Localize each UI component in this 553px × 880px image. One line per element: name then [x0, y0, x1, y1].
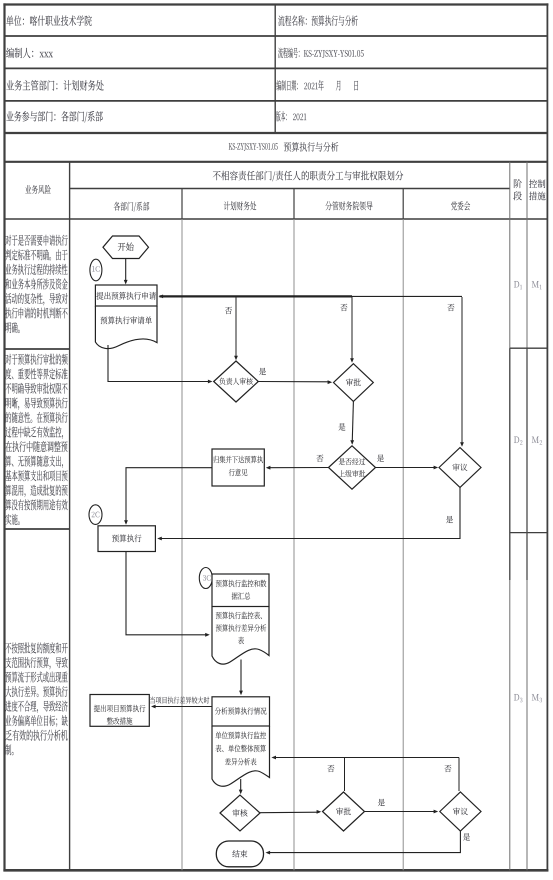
- process box 预算执行: [98, 526, 155, 552]
- column line finance|leader: [293, 219, 295, 870]
- label 是 (deliberate): [446, 516, 453, 523]
- label 提出项目预算执行整改措施: [94, 705, 146, 712]
- label 审批: [346, 378, 361, 386]
- label 否 (approve): [340, 304, 347, 311]
- label 预算执行: [112, 534, 141, 542]
- decision diamond 审议: [439, 448, 481, 488]
- wire review->approve: [258, 381, 330, 383]
- label 否 (upper): [316, 455, 323, 462]
- wire upper-yes->deliberate: [376, 467, 437, 469]
- process box 归集并下达预算执行意见: [212, 449, 264, 486]
- header 阶段: [514, 179, 522, 188]
- info table bottom line: [4, 132, 547, 134]
- header 各部门/系部: [114, 202, 150, 212]
- header 业务风险: [25, 185, 50, 194]
- label 1C: [92, 266, 100, 272]
- decision diamond 审批: [334, 364, 374, 402]
- wire monitor->analyse: [240, 660, 242, 694]
- stage label D3: [514, 694, 519, 700]
- label 结束: [232, 850, 247, 858]
- info 业务参与部门: [6, 111, 102, 123]
- label 单位预算执行监控表: [215, 732, 266, 739]
- stage row divider 2: [510, 532, 548, 534]
- wire analyse->check: [240, 779, 242, 793]
- connector circle 3C: [199, 568, 212, 589]
- decision diamond 审议 (bottom): [440, 792, 481, 831]
- label 是 (upper): [377, 455, 384, 462]
- process box 预算执行监控和数据汇总: [212, 574, 269, 607]
- stage label D1: [514, 281, 519, 287]
- wire check->approve2: [260, 811, 320, 814]
- label 预算执行监控表: [216, 612, 262, 619]
- label 预算执行审请单: [101, 316, 152, 324]
- header 计划财务处: [224, 201, 256, 210]
- outer border top: [3, 3, 548, 5]
- column name row divider 2: [293, 189, 295, 220]
- label 预算执行监控和数据汇总: [216, 580, 267, 587]
- wire deliberate2-yes->end: [267, 831, 460, 853]
- label 提出预算执行申请: [96, 292, 155, 300]
- connector circle 2C: [89, 505, 102, 525]
- label 是 (approve2): [378, 799, 385, 806]
- info table row line 3: [4, 100, 547, 102]
- label 开始: [118, 242, 134, 251]
- label 负责人审核: [219, 378, 252, 385]
- column name row divider 3: [402, 189, 404, 220]
- label 否 (approve2): [327, 765, 334, 772]
- label 否 (review): [225, 307, 232, 314]
- wire rejection return (thin): [352, 295, 462, 297]
- header bottom line: [4, 218, 547, 220]
- title row bottom line: [4, 161, 547, 163]
- document 预算执行监控表等: [212, 607, 269, 665]
- label 否 (deliberate2): [444, 765, 451, 772]
- label 是 (deliberate2): [463, 833, 470, 840]
- column line leader|committee: [402, 219, 404, 870]
- label 审核: [233, 809, 248, 817]
- header 不相容责任部门: [213, 171, 403, 182]
- column line departments|finance: [181, 219, 183, 870]
- wire bottom rejection loop: [273, 757, 459, 759]
- decision diamond 是否经过上级审批: [329, 446, 376, 489]
- wire approve->upper check: [352, 401, 353, 443]
- title row: [229, 143, 278, 151]
- header 分管财务院领导: [325, 201, 372, 210]
- info 编制人: [6, 48, 33, 59]
- header 控制措施: [529, 179, 545, 188]
- control label M2: [532, 437, 539, 443]
- label 是 (review): [259, 368, 266, 375]
- outer border bottom: [3, 869, 548, 872]
- wire drop to deliberate diamond: [461, 297, 463, 446]
- wire collect->execute: [126, 468, 212, 524]
- stage column dark segment left: [509, 348, 511, 580]
- column line committee|stage: [509, 162, 511, 871]
- label 是 (approve): [338, 423, 345, 430]
- header mid line: [70, 188, 510, 190]
- risk row divider 2: [4, 528, 70, 530]
- outer border right: [546, 3, 548, 871]
- stage label D2: [514, 437, 519, 443]
- label 审批 (bottom): [336, 808, 351, 816]
- decision diamond 负责人审核: [214, 361, 259, 402]
- process box 提出预算执行申请: [95, 285, 157, 306]
- info 流程名称: [278, 15, 357, 26]
- wire execute->monitor: [126, 552, 208, 635]
- risk text block 3: [5, 642, 67, 653]
- connector circle 1C: [90, 259, 102, 281]
- header 党委会: [451, 201, 470, 210]
- wire drop to review diamond: [235, 297, 237, 359]
- risk text block 1: [5, 235, 67, 246]
- column line stage|control: [526, 162, 528, 871]
- end terminator 结束: [216, 841, 263, 867]
- info table row line 2: [4, 67, 547, 69]
- wire deliberate-yes->execute: [159, 487, 461, 538]
- document 预算执行审请单: [95, 306, 157, 349]
- wire upper-no->collect box: [268, 467, 329, 469]
- label 3C: [203, 575, 211, 581]
- outer border left: [3, 3, 5, 871]
- wire rejection return (thick): [160, 295, 353, 297]
- label 审议 (bottom): [453, 808, 468, 816]
- wire approve2->deliberate2: [365, 811, 437, 813]
- decision diamond 审核: [220, 795, 260, 831]
- wire drop to approve diamond: [351, 297, 353, 362]
- label 审议: [453, 463, 468, 471]
- info 编制日期: [276, 80, 297, 91]
- label 否 (deliberate): [447, 304, 454, 311]
- wire drop to bottom deliberate: [458, 758, 460, 792]
- wire start->apply: [125, 259, 127, 282]
- decision diamond 审批 (bottom): [323, 792, 365, 831]
- column name row divider 1: [181, 189, 183, 220]
- risk row divider 1: [4, 348, 70, 350]
- wire document->review: [108, 345, 211, 382]
- info 业务主管部门: [6, 80, 103, 91]
- process box 分析预算执行情况: [212, 697, 270, 726]
- stage row divider 1: [510, 347, 548, 349]
- label 当项目执行差异较大时: [150, 697, 209, 704]
- column line risk|departments: [69, 162, 71, 871]
- info 单位: [6, 15, 92, 26]
- info table column divider: [274, 4, 276, 133]
- info 版本: [276, 111, 287, 122]
- label 2C: [92, 512, 100, 518]
- control label M3: [532, 694, 539, 700]
- label 分析预算执行情况: [215, 707, 267, 714]
- start terminator 开始: [103, 236, 149, 259]
- info table row line 1: [4, 35, 547, 37]
- control label M1: [532, 281, 539, 287]
- label 是否经过上级审批: [339, 458, 366, 465]
- risk text block 2: [5, 354, 67, 365]
- process box 提出项目预算执行整改措施: [90, 695, 149, 727]
- document 单位预算执行监控表等: [212, 726, 270, 786]
- wire analyse->correction: [153, 706, 213, 708]
- stage column dark segment right: [526, 348, 528, 580]
- wire drop to bottom approve: [344, 758, 346, 792]
- info 流程编号: [278, 48, 299, 59]
- label 归集并下达预算执行意见: [213, 456, 263, 463]
